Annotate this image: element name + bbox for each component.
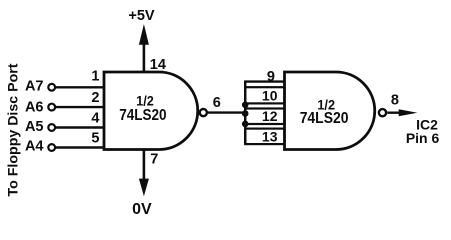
node A4 terminal circle (48, 144, 55, 151)
input bus vertical wire (244, 82, 246, 145)
wire pin 6 to input bus (208, 111, 245, 113)
junction dot middle (242, 110, 249, 117)
svg-text:8: 8 (391, 93, 399, 109)
svg-text:74LS20: 74LS20 (300, 110, 349, 127)
node A5 terminal circle (48, 124, 55, 131)
svg-text:7: 7 (150, 151, 158, 167)
wire A4 to pin 5 (55, 146, 104, 148)
U1 output inversion bubble (pin 6) (200, 109, 207, 116)
node A6 terminal circle (48, 104, 55, 111)
0V arrowhead (139, 179, 149, 197)
U2 output inversion bubble (pin 8) (379, 109, 386, 116)
NAND gate U2 body (1/2 74LS20) (285, 72, 375, 150)
+5V supply wire (pin 14) (143, 42, 146, 72)
svg-text:To Floppy Disc Port: To Floppy Disc Port (6, 63, 22, 196)
svg-text:5: 5 (91, 131, 99, 147)
junction dot bottom (242, 121, 249, 128)
svg-text:4: 4 (91, 110, 99, 126)
svg-text:74LS20: 74LS20 (119, 107, 166, 124)
svg-text:12: 12 (262, 108, 278, 124)
output arrowhead (399, 109, 418, 116)
svg-text:9: 9 (267, 69, 275, 85)
pin 12 boxed label and wire (245, 109, 284, 125)
svg-text:6: 6 (213, 95, 221, 111)
svg-text:14: 14 (150, 57, 166, 73)
NAND gate U1 body (1/2 74LS20) (104, 72, 198, 150)
svg-text:+5V: +5V (128, 8, 155, 24)
svg-text:A7: A7 (25, 79, 44, 95)
svg-text:0V: 0V (132, 201, 152, 218)
wire A6 to pin 2 (55, 106, 104, 108)
svg-text:13: 13 (262, 128, 278, 144)
svg-text:10: 10 (262, 88, 278, 104)
svg-text:A5: A5 (25, 119, 44, 135)
junction dot top (242, 102, 249, 109)
wire A7 to pin 1 (55, 86, 104, 88)
svg-text:1: 1 (91, 69, 99, 85)
node A7 terminal circle (48, 84, 55, 91)
pin 13 boxed label and wire (245, 129, 284, 145)
0V wire (pin 7) (143, 150, 146, 181)
svg-text:Pin 6: Pin 6 (406, 130, 440, 146)
wire A5 to pin 4 (55, 126, 104, 128)
svg-text:2: 2 (91, 90, 99, 106)
svg-text:A4: A4 (25, 139, 44, 155)
output wire pin 8 (387, 111, 402, 113)
wire pin 9 (244, 80, 285, 82)
+5V arrowhead (139, 24, 149, 45)
pin 10 boxed label and wire (245, 87, 284, 103)
svg-text:A6: A6 (25, 99, 44, 115)
